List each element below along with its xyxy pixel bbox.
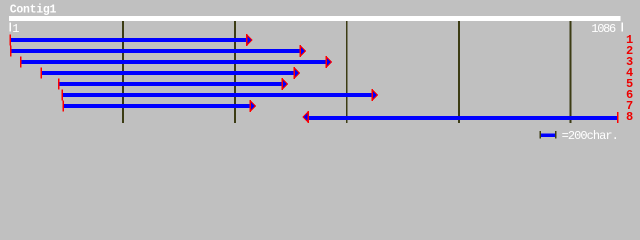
grid line 1000 <box>570 21 572 123</box>
read number 8 <box>626 110 633 124</box>
svg-text:1: 1 <box>12 22 19 36</box>
read number 7 <box>626 99 633 113</box>
svg-text:=200char.: =200char. <box>562 129 618 143</box>
grid line 200 <box>122 21 124 123</box>
svg-text:8: 8 <box>626 110 633 124</box>
svg-text:1086: 1086 <box>591 22 616 36</box>
legend scale bar <box>540 131 557 139</box>
ruler right label 1086| <box>591 22 623 36</box>
ruler bar <box>9 16 621 21</box>
read number 5 <box>626 77 633 91</box>
ruler left label |1 <box>10 22 20 36</box>
svg-text:Contig1: Contig1 <box>10 3 57 16</box>
read number 3 <box>626 55 633 69</box>
read 4 line <box>40 67 300 79</box>
read 3 line <box>20 56 332 68</box>
read 7 line <box>62 100 256 112</box>
read 2 line <box>10 45 306 57</box>
read 6 line <box>61 89 378 101</box>
read 8 line (reverse) <box>302 111 619 123</box>
read 1 line <box>9 34 252 46</box>
read number 1 <box>626 33 633 47</box>
contig title "Contig1" <box>10 3 57 16</box>
grid line 400 <box>234 21 236 123</box>
grid line 600 <box>346 21 348 123</box>
read number 2 <box>626 44 633 58</box>
read number 6 <box>626 88 633 102</box>
read number 4 <box>626 66 633 80</box>
legend label =200char. <box>562 129 618 143</box>
grid line 800 <box>458 21 460 123</box>
read 5 line <box>58 78 288 90</box>
